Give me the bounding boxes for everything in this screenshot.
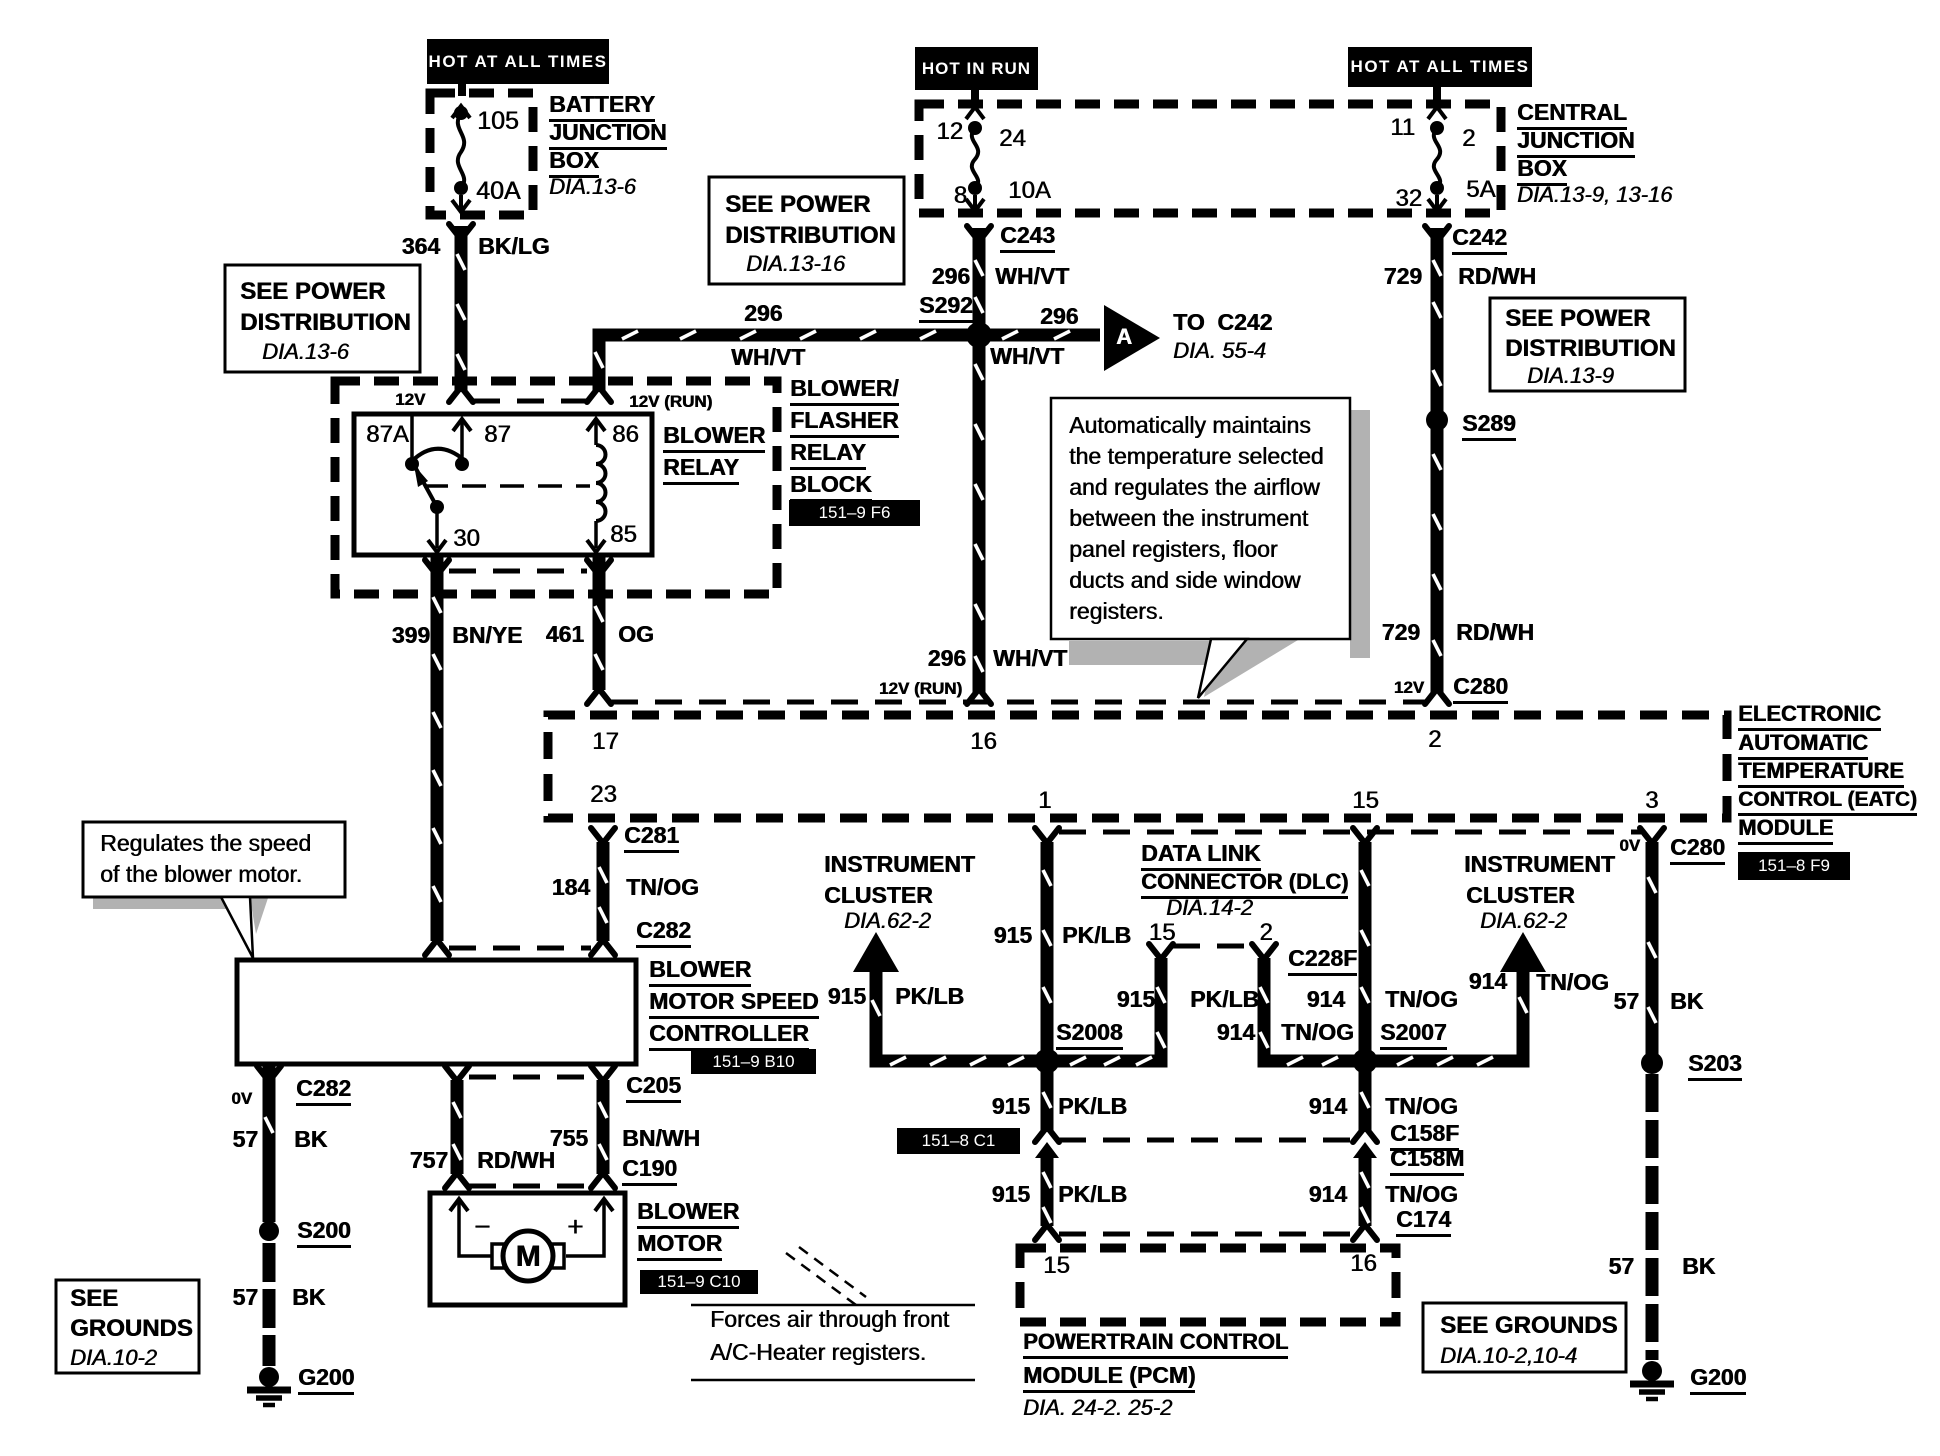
relay pin 85 lead (594, 521, 598, 548)
label M motor (516, 1242, 541, 1272)
label 12V RUN relay (629, 393, 712, 410)
blower/flasher relay block outline (335, 381, 777, 594)
connector C282 fork above controller (399) (425, 941, 449, 955)
fuse 105 40A (454, 106, 468, 120)
connector 755 fork below controller (591, 1066, 615, 1080)
connector 461 fork at EATC pin 17 (587, 690, 611, 704)
label 729 top (1384, 265, 1422, 288)
label PK/LB dlc wire (1190, 988, 1259, 1011)
label see grounds right (1440, 1314, 1617, 1338)
label minus (474, 1213, 490, 1241)
connector C282 fork below controller (257, 1066, 281, 1080)
relay switch armature (414, 465, 437, 507)
label C281 (624, 824, 679, 853)
label C282 upper (636, 919, 691, 948)
label 915 mid (992, 1095, 1030, 1118)
arrow A TO C242 (1104, 305, 1160, 371)
label see power distribution 13-16 (725, 193, 870, 217)
label 915 low (992, 1183, 1030, 1206)
label 914 eatc15 wire (1307, 988, 1345, 1011)
fuse 2 5A pin arrow top (1428, 107, 1446, 119)
connector C190 fork at motor (757) (445, 1174, 469, 1188)
label 914 low (1309, 1183, 1347, 1206)
see power distribution DIA.13-6 box (225, 265, 420, 372)
fuse 2 pin arrow bottom (1428, 195, 1446, 211)
tag 151-8 C1 (897, 1128, 1020, 1154)
label S2007 (1380, 1021, 1447, 1050)
connector C280 fork at EATC pin 3 (1640, 828, 1664, 842)
connector C242 (1425, 226, 1449, 240)
relay coil link dashed line (424, 484, 590, 488)
blower motor outline (430, 1193, 625, 1305)
label 915 arrow left (828, 985, 866, 1008)
wire 915 PK/LB to DLC pin 15 (1155, 958, 1168, 1055)
pin 10A (1008, 179, 1051, 203)
label A in arrow (1116, 326, 1132, 348)
connector C243 (967, 226, 991, 240)
label 296 left (744, 302, 782, 325)
connector C? fork below battery junction box (449, 224, 473, 238)
label 57 right upper (1613, 990, 1639, 1013)
label S203 (1688, 1052, 1742, 1081)
label RD/WH lower (1456, 621, 1534, 644)
blower motor left brush (492, 1244, 504, 1268)
C158 connector dashed line (1059, 1138, 1353, 1143)
DLC connector dashed line (1173, 944, 1252, 949)
label central junction box (1517, 101, 1627, 130)
label C228F (1288, 947, 1357, 976)
label see grounds left (70, 1287, 118, 1311)
wire 914 TN/OG horizontal right (1359, 1055, 1530, 1068)
wire 729 RD/WH vertical (1431, 228, 1444, 692)
label TN/OG mid (1385, 1095, 1458, 1118)
wire 296 WH/VT vertical (973, 228, 986, 692)
label blower relay (663, 424, 765, 453)
label TN/OG eatc15 wire (1385, 988, 1458, 1011)
callout pointer (regulates) (221, 897, 253, 958)
label 57 left lower (232, 1286, 258, 1309)
wire 57 BK left (263, 1064, 276, 1222)
see power distribution DIA.13-16 box (709, 177, 904, 284)
tag 151-9 B10 (691, 1049, 816, 1074)
pin 86 (612, 423, 639, 447)
label S2008 (1056, 1021, 1123, 1050)
label 755 (550, 1127, 588, 1150)
connector 914 fork at EATC pin 15 (1353, 828, 1377, 842)
label 296 top (932, 265, 970, 288)
pin 30 (453, 527, 480, 551)
label WH/VT at arrow (990, 345, 1064, 368)
balloon pointer tail (1198, 639, 1247, 698)
C158M male arrow right (1353, 1142, 1377, 1158)
blower motor minus lead (450, 1199, 468, 1211)
label WH/VT top (995, 265, 1069, 288)
see grounds DIA.10-2 box (56, 1280, 199, 1373)
splice S289 (1426, 409, 1448, 431)
wire 399 BN/YE (431, 557, 444, 941)
pin 40A (476, 179, 520, 204)
wire 57 BK from EATC pin 3 (1646, 842, 1659, 1063)
fuse 105 40A pin arrow top (452, 106, 470, 118)
connector 757 fork below controller (445, 1066, 469, 1080)
label 12V RUN at EATC (879, 680, 962, 697)
splice S292 (966, 322, 992, 348)
blower relay outline (354, 414, 652, 555)
label 184 (552, 876, 590, 899)
wire 184 TN/OG (597, 842, 610, 941)
label C280 at pin 2 (1453, 675, 1508, 704)
label RD/WH 757 (477, 1149, 555, 1172)
wire 915 PK/LB horizontal left (870, 1055, 1168, 1068)
label 57 right lower (1608, 1255, 1634, 1278)
label 12V relay (395, 391, 425, 408)
label 461 (546, 623, 584, 646)
label C205 (626, 1074, 681, 1103)
label S292 (919, 294, 973, 323)
wire 914 TN/OG from DLC pin 2 (1258, 958, 1271, 1061)
wire 914 TN/OG to PCM pin 16 (1359, 1156, 1372, 1226)
label S289 (1462, 412, 1516, 441)
EATC 12V link dashed line (611, 700, 1425, 705)
pin 15 DLC (1149, 921, 1176, 945)
connector C280 fork at EATC pin 2 (1425, 690, 1449, 704)
instrument cluster arrow right (1500, 932, 1546, 972)
label PK/LB low (1058, 1183, 1127, 1206)
label powertrain control module (1023, 1331, 1288, 1359)
blower motor armature circle (503, 1231, 553, 1281)
label WH/VT left (731, 346, 805, 369)
label 757 (410, 1149, 448, 1172)
battery junction box outline (430, 93, 533, 215)
wire 757 RD/WH (451, 1080, 464, 1174)
connector C228F fork DLC pin 2 (1252, 944, 1276, 958)
wire 915 PK/LB between S2008 and C158F (1041, 1071, 1054, 1128)
label plus (567, 1213, 583, 1241)
label battery junction box (549, 93, 655, 122)
EATC C280 connector dashed line (1059, 830, 1641, 835)
label WH/VT lower (993, 647, 1067, 670)
label RD/WH top (1458, 265, 1536, 288)
wire 461 OG (593, 557, 606, 690)
label 914 mid (1309, 1095, 1347, 1118)
label instrument cluster right (1464, 853, 1615, 876)
balloon shadow (1350, 410, 1370, 658)
pin 2 EATC (1428, 728, 1441, 752)
connector 12V (RUN) fork at relay block (587, 388, 611, 402)
ground G200 left (259, 1367, 279, 1387)
connector C228F fork DLC pin 15 (1149, 944, 1173, 958)
tag 151-9 F6 (789, 500, 920, 526)
label TN/OG low (1385, 1183, 1458, 1206)
blower motor right brush (552, 1244, 564, 1268)
tag 151-8 F9 (1738, 852, 1850, 880)
label C158F (1390, 1122, 1459, 1151)
label blower motor speed controller (649, 958, 751, 987)
label BK right lower (1682, 1255, 1715, 1278)
label 296 lower (928, 647, 966, 670)
pin 1 (1038, 789, 1051, 813)
pin 11 (1390, 116, 1415, 140)
pin 15 PCM (1043, 1254, 1070, 1278)
tag HOT AT ALL TIMES left (427, 39, 609, 84)
connector C281 (591, 828, 615, 842)
label 399 (392, 624, 430, 647)
fuse 105 pin arrow bottom (452, 195, 470, 212)
label 914 arrow right (1469, 970, 1507, 993)
C174 connector dashed line (1059, 1232, 1353, 1237)
connector C190 fork at motor (755) (591, 1174, 615, 1188)
label BN/YE (452, 624, 522, 647)
label data link connector (1141, 842, 1261, 871)
label 729 lower (1382, 621, 1420, 644)
pin 3 (1645, 789, 1658, 813)
label PK/LB mid (1058, 1095, 1127, 1118)
fuse 2 5A (1430, 121, 1444, 135)
label 914 dlc2 wire (1217, 1021, 1255, 1044)
label TN/OG arrow right (1536, 971, 1609, 994)
fuse 24 10A pin arrow top (966, 107, 984, 119)
label 915 dlc wire (1117, 988, 1155, 1011)
wire 914 TN/OG horizontal to S2007 (1258, 1055, 1372, 1068)
label PK/LB arrow left (895, 985, 964, 1008)
label G200 left (298, 1366, 354, 1395)
tag HOT IN RUN (915, 47, 1038, 90)
pin 16 PCM (1350, 1252, 1377, 1276)
tag HOT AT ALL TIMES right (1348, 47, 1532, 87)
label G200 right (1690, 1366, 1746, 1395)
pin 87 (484, 423, 511, 447)
wire 296 elbow down to relay block 12V (RUN) (593, 329, 606, 392)
wire 755 BN/WH (597, 1080, 610, 1174)
C158M male arrow left (1035, 1142, 1059, 1158)
label blower/flasher relay block (790, 377, 899, 406)
callout box regulates the speed (83, 822, 345, 897)
pin 12 (936, 120, 963, 144)
C205 connector dashed line (469, 1075, 591, 1080)
splice S2008 (1035, 1049, 1060, 1074)
label TN/OG dlc2 wire (1281, 1021, 1354, 1044)
label see power distribution 13-6 (240, 280, 385, 304)
label EATC module (1738, 703, 1881, 731)
pin 5A (1466, 178, 1495, 202)
label C243 (1000, 224, 1055, 253)
wire 296 WH/VT horizontal (593, 329, 1101, 342)
splice S203 (1641, 1052, 1663, 1074)
C190 connector dashed line (469, 1184, 591, 1189)
splice S2007 (1353, 1049, 1378, 1074)
label instrument cluster left (824, 853, 975, 876)
pin 16 (970, 730, 997, 754)
label BK left lower (292, 1286, 325, 1309)
dashed leader from blower motor label to note (786, 1253, 856, 1305)
tag 151-9 C10 (640, 1270, 758, 1294)
relay block 12V link dashed line (473, 399, 587, 404)
label 0V right (1619, 837, 1640, 854)
fuse 24 10A (968, 121, 982, 135)
label OG (618, 623, 654, 646)
label blower motor (637, 1200, 739, 1229)
connector C174 fork left (1035, 1226, 1059, 1240)
label C158M (1390, 1147, 1464, 1176)
label see power distribution 13-9 (1505, 307, 1650, 331)
wire 915 PK/LB to PCM pin 15 (1041, 1156, 1054, 1226)
label C190 (622, 1157, 677, 1186)
central junction box outline (919, 104, 1501, 213)
connector 915 fork at EATC pin 1 (1035, 828, 1059, 842)
see grounds DIA.10-2,10-4 box (1423, 1303, 1626, 1372)
powertrain control module outline (1020, 1248, 1396, 1322)
label C242 (1452, 226, 1507, 255)
relay pin 86 lead (594, 420, 598, 445)
relay switch arc (412, 449, 464, 461)
label 296 at arrow (1040, 305, 1078, 328)
label PK/LB pin1 (1062, 924, 1131, 947)
label 364 (402, 235, 440, 258)
label TO C242 (1173, 311, 1272, 334)
label 0V left (231, 1090, 252, 1107)
label BN/WH (622, 1127, 700, 1150)
wire stub from HOT IN RUN tag to central junction box (971, 88, 979, 106)
wire 914 TN/OG between S2007 and C158F (1359, 1071, 1372, 1128)
connector C174 fork right (1353, 1226, 1377, 1240)
pin 17 (592, 730, 619, 754)
label BK/LG (478, 235, 550, 258)
blower motor plus lead (595, 1199, 613, 1211)
label BK left upper (294, 1128, 327, 1151)
label C280 at pin 3 (1670, 836, 1725, 865)
balloon text (1069, 414, 1311, 437)
connector 399 fork at relay block bottom (425, 560, 449, 574)
pin 15 EATC (1352, 789, 1379, 813)
pin 24 (999, 127, 1026, 151)
note rule above forces air text (691, 1304, 975, 1307)
C282 connector dashed line (449, 946, 591, 951)
callout shadow (regulates) (93, 897, 241, 909)
balloon box automatically maintains (1051, 398, 1350, 639)
pin 32 (1395, 187, 1422, 211)
splice S200 (259, 1221, 279, 1241)
connector 12V fork at relay block (449, 388, 473, 402)
see power distribution DIA.13-9 box (1490, 298, 1685, 391)
wire 915 PK/LB arrow shaft left (870, 968, 883, 1061)
pin 2 (1462, 127, 1475, 151)
relay block bottom link dashed line (449, 569, 587, 574)
pin 105 (477, 109, 519, 134)
label TN/OG 184 (626, 876, 699, 899)
label C174 (1396, 1208, 1451, 1237)
note rule below forces air text (691, 1379, 975, 1382)
wire stub from HOT AT ALL TIMES tag to central junction box (1433, 85, 1441, 106)
relay pin 87A lead (410, 416, 414, 462)
label 915 pin1 (994, 924, 1032, 947)
EATC module outline (548, 715, 1727, 818)
pin 8 (954, 184, 967, 208)
relay coil (596, 445, 606, 521)
wire 915 PK/LB from EATC pin 1 (1041, 842, 1054, 1132)
label 12V at EATC (1394, 679, 1424, 696)
relay pin 87 lead (453, 419, 471, 431)
relay pin 30 lead (435, 507, 439, 548)
label S200 (297, 1219, 351, 1248)
connector C158F fork left (1035, 1128, 1059, 1142)
note forces air (710, 1308, 949, 1331)
instrument cluster arrow left (853, 932, 899, 972)
connector C282 fork above controller (184) (591, 941, 615, 955)
wire 57 BK left dashed to ground (263, 1243, 276, 1366)
connector C158F fork right (1353, 1128, 1377, 1142)
pin 85 (610, 523, 637, 547)
connector 461 fork at relay block bottom (587, 560, 611, 574)
blower motor speed controller outline (237, 960, 636, 1064)
pin 23 (590, 783, 617, 807)
wire 364 BK/LG vertical (455, 226, 468, 392)
pin 87A (366, 423, 409, 447)
wire 914 TN/OG from EATC pin 15 (1359, 842, 1372, 1132)
wire 914 TN/OG arrow shaft right (1517, 968, 1530, 1061)
label 57 left upper (232, 1128, 258, 1151)
ground G200 right (1642, 1361, 1662, 1381)
fuse 24 pin arrow bottom (966, 195, 984, 211)
pin 2 DLC (1259, 921, 1272, 945)
connector 296 fork at EATC pin 16 (967, 690, 991, 704)
label C282 lower (296, 1077, 351, 1106)
callout text regulates (100, 832, 311, 855)
wire 57 BK right dashed to ground (1646, 1074, 1659, 1360)
wire stub from HOT AT ALL TIMES tag to battery junction box (458, 82, 466, 96)
label BK right upper (1670, 990, 1703, 1013)
